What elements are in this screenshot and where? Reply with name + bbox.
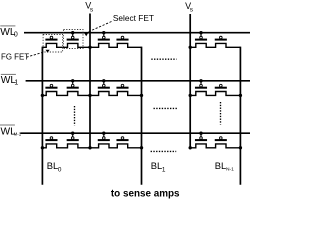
wire WLM-1 word line — [20, 132, 250, 134]
select FET row M-1, left of Vs — [67, 132, 79, 142]
select FET row 0, right of Vs — [98, 31, 110, 41]
FG FET row M-1, col BLN-1 side — [215, 137, 227, 141]
label BL0 — [47, 160, 62, 174]
wire BLN-1 bit line — [239, 47, 241, 185]
label Vs (right) — [185, 1, 194, 14]
arrowhead at select FET — [84, 33, 88, 36]
FG FET row 1, col BL0 side — [45, 84, 57, 88]
svg-text:BL: BL — [215, 160, 226, 171]
svg-text:0: 0 — [58, 166, 62, 173]
wire row0 string block C (source-drain path) — [190, 43, 240, 47]
wire row2 string block A (source-drain path) — [42, 144, 90, 148]
wire row1 string block C (source-drain path) — [190, 92, 240, 96]
svg-text:1: 1 — [14, 79, 18, 86]
ellipsis dots (continuation) row0 middle — [151, 58, 176, 60]
wire Vs source line (left) — [89, 14, 91, 148]
wire BL0 bit line — [41, 47, 43, 185]
wire row1 string block A (source-drain path) — [42, 92, 90, 96]
wire row0 string block A (source-drain path) — [42, 43, 90, 47]
junction Vs-right / row1 string — [189, 94, 192, 97]
junction BL0 / rowM-1 string — [41, 146, 44, 149]
svg-text:BL: BL — [47, 160, 58, 171]
junction Vs-right / rowM-1 string — [189, 146, 192, 149]
select FET row 1, right of Vs — [98, 79, 110, 89]
vertical ellipsis dots left block — [74, 106, 76, 126]
svg-text:0: 0 — [14, 31, 18, 38]
wire row2 string block C (source-drain path) — [190, 144, 240, 148]
vertical ellipsis dots right block — [220, 102, 222, 125]
svg-text:N-1: N-1 — [226, 167, 234, 173]
junction BLN-1 / rowM-1 string — [239, 146, 242, 149]
ellipsis dots (continuation) row1 middle — [154, 107, 179, 109]
label WL1 with overline — [1, 74, 19, 86]
svg-text:1: 1 — [162, 166, 166, 173]
label BLN-1 — [215, 160, 234, 173]
select FET row M-1, right of Vs (last block) — [195, 132, 207, 142]
FG FET row 1, col BLN-1 side — [215, 84, 227, 88]
junction Vs-right / row0 string — [189, 46, 192, 49]
junction Vs-left / row1 string — [88, 94, 91, 97]
label WLM-1 with overline — [0, 125, 22, 138]
leader line from FG FET label — [27, 52, 45, 57]
FG FET row 0, col BL0 side — [45, 36, 57, 40]
wire WL1 word line — [26, 80, 250, 82]
label BL1 — [151, 160, 166, 174]
svg-text:FG FET: FG FET — [1, 53, 29, 62]
arrowhead at FG FET — [46, 50, 50, 53]
wire WL0 word line — [24, 32, 250, 34]
FG FET row 0, col BLN-1 side — [215, 36, 227, 40]
FG FET row M-1, col BL0 side — [45, 137, 57, 141]
FG FET row 1, col BL1 side — [116, 84, 128, 88]
select FET row M-1, right of Vs — [98, 132, 110, 142]
ellipsis dots (continuation) rowM-1 middle — [151, 150, 177, 152]
junction Vs-left / row0 string — [88, 46, 91, 49]
select FET row 0, right of Vs (last block) — [195, 31, 207, 41]
dashed box around FG FET — [43, 35, 63, 53]
svg-text:BL: BL — [151, 160, 162, 171]
FG FET row M-1, col BL1 side — [116, 137, 128, 141]
svg-text:s: s — [90, 6, 94, 13]
leader line from Select FET label — [88, 22, 112, 33]
junction BL1 / rowM-1 string — [140, 146, 143, 149]
select FET row 0, left of Vs — [67, 31, 79, 41]
wire row1 string block B (source-drain path) — [90, 92, 142, 96]
svg-text:to sense amps: to sense amps — [111, 189, 180, 200]
label Vs (left) — [85, 1, 94, 14]
select FET row 1, right of Vs (last block) — [195, 79, 207, 89]
junction BLN-1 / row1 string — [239, 94, 242, 97]
svg-text:M-1: M-1 — [14, 132, 22, 137]
select FET row 1, left of Vs — [67, 79, 79, 89]
wire row2 string block B (source-drain path) — [90, 144, 142, 148]
junction Vs-left / rowM-1 string — [88, 146, 91, 149]
label WL0 with overline — [0, 26, 18, 39]
dashed box around Select FET — [64, 30, 84, 49]
wire row0 string block B (source-drain path) — [90, 43, 142, 47]
wire Vs source line (right) — [189, 14, 191, 148]
wire BL1 bit line — [141, 47, 143, 185]
junction BL1 / row1 string — [140, 94, 143, 97]
svg-text:Select FET: Select FET — [113, 13, 154, 23]
svg-text:s: s — [190, 7, 194, 14]
junction BL0 / row1 string — [41, 94, 44, 97]
FG FET row 0, col BL1 side — [116, 36, 128, 40]
